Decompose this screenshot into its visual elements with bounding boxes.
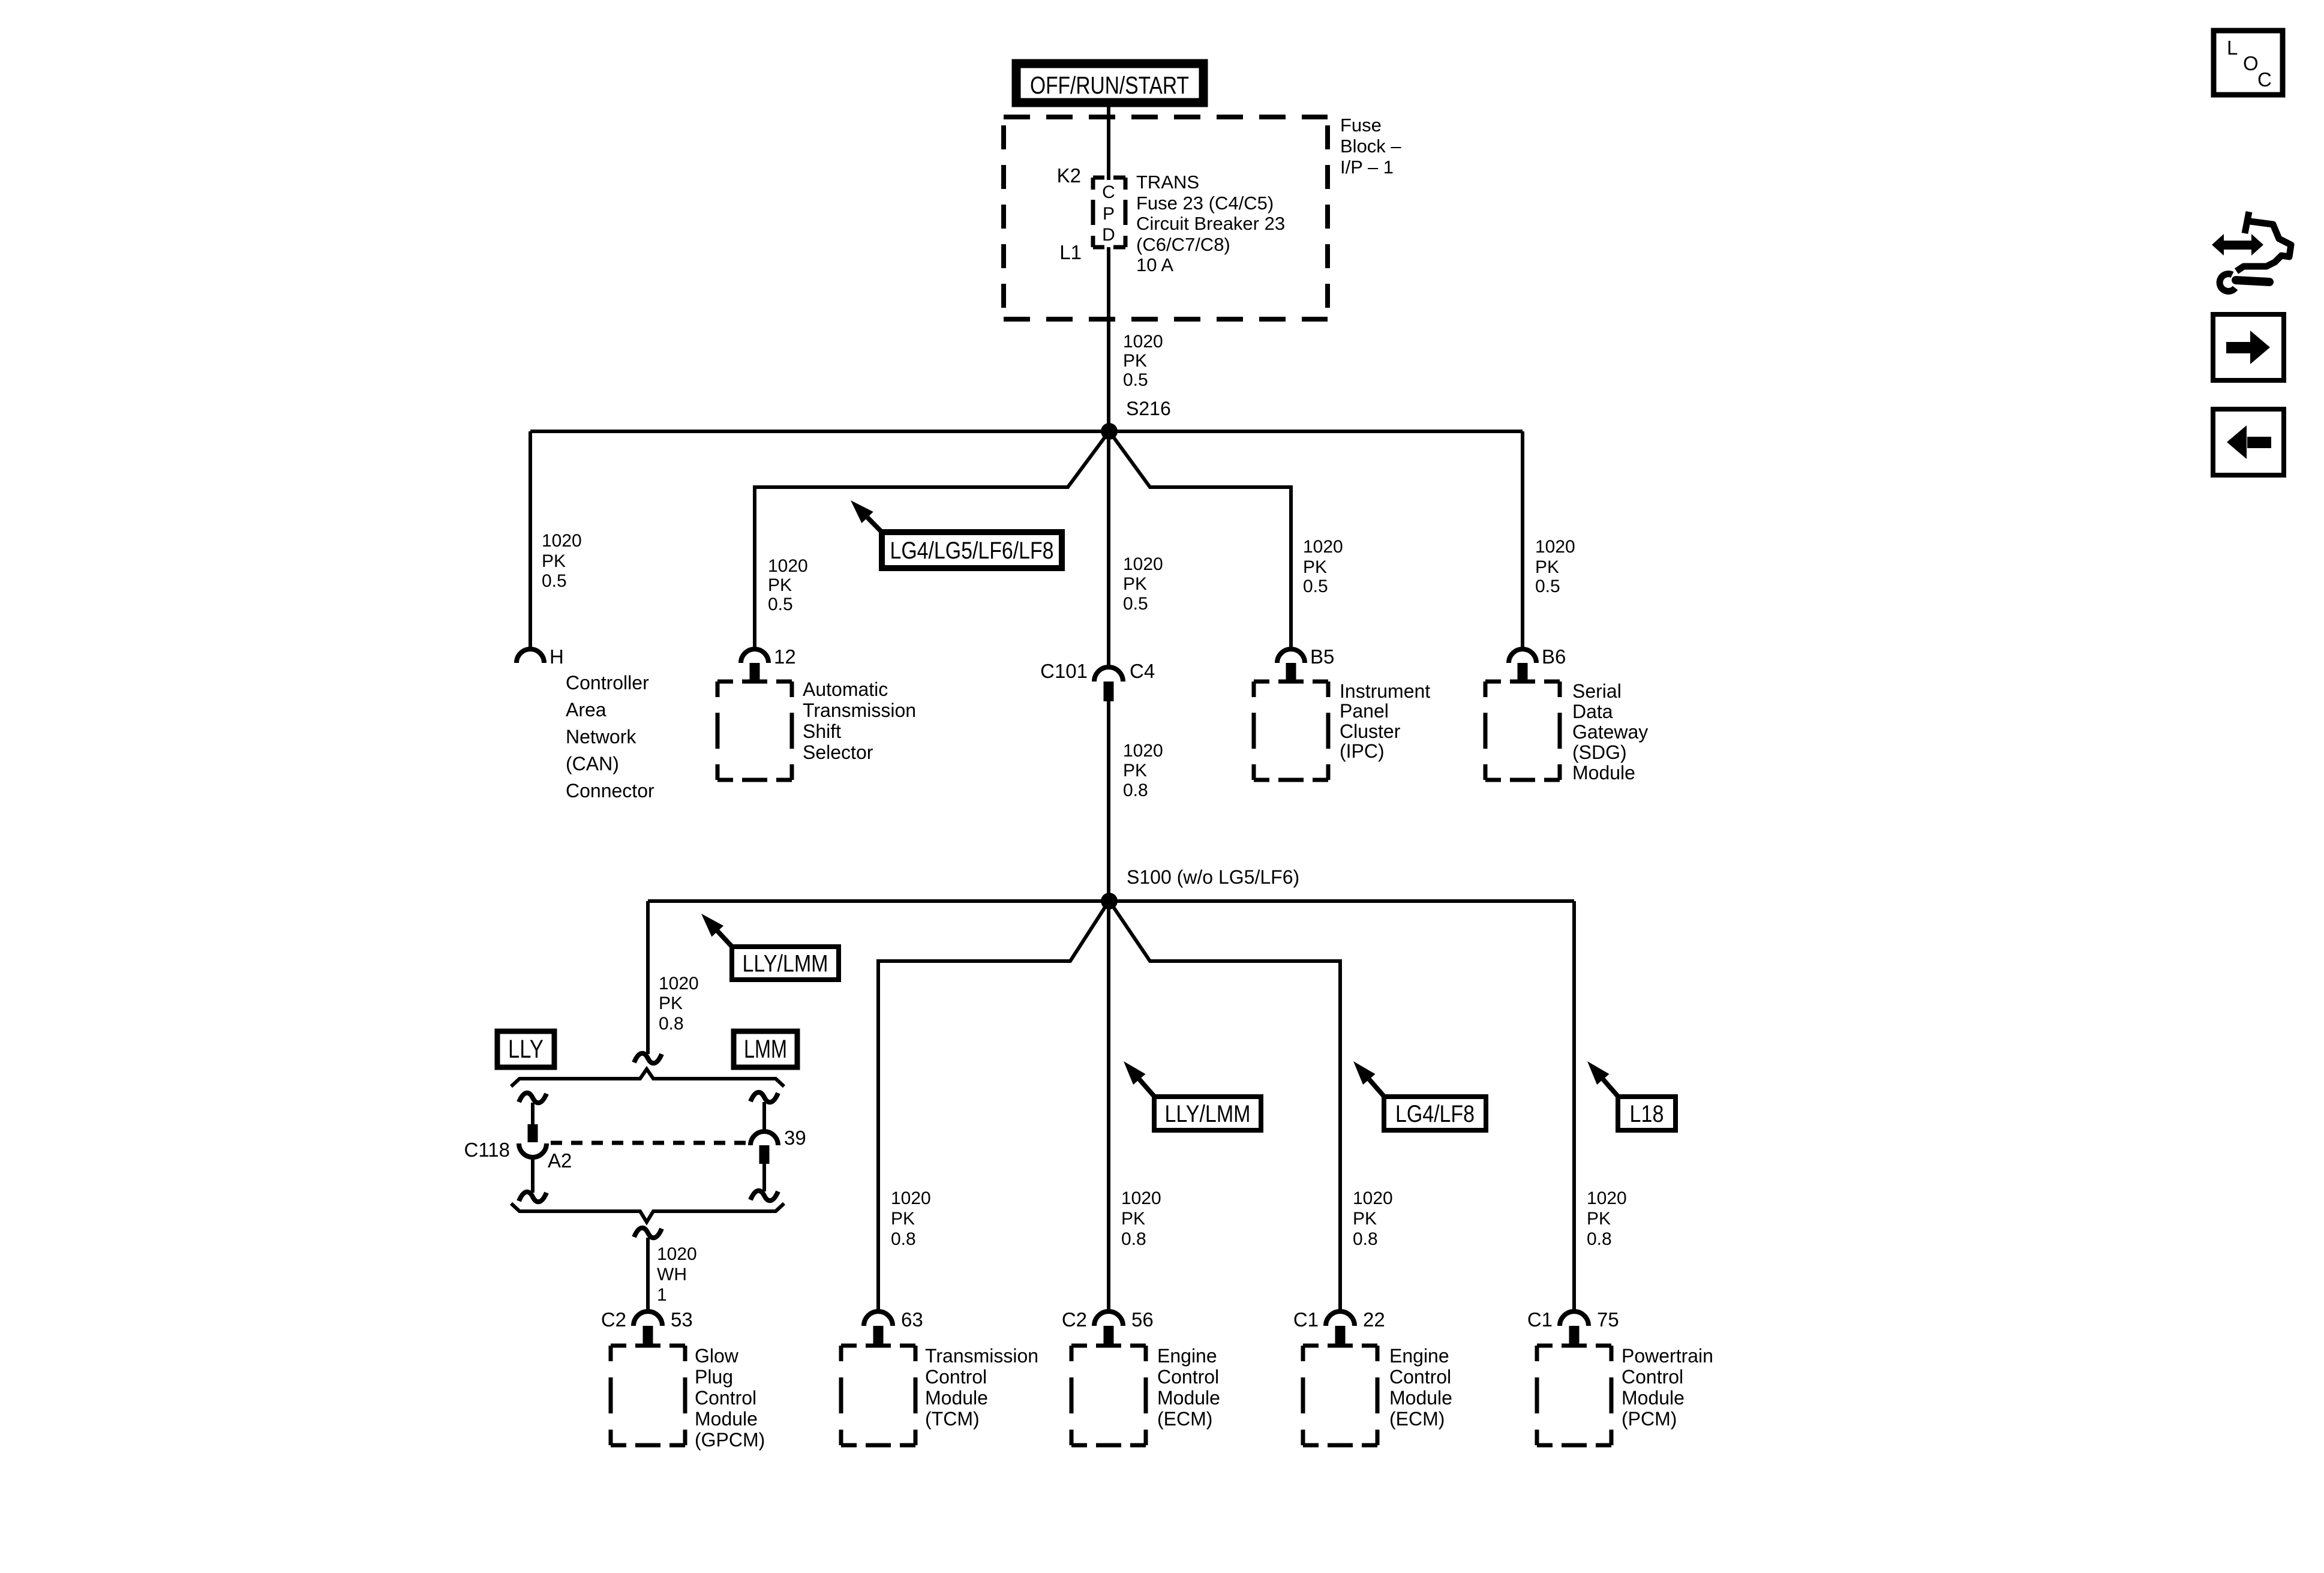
svg-text:0.8: 0.8 — [1587, 1229, 1612, 1249]
svg-text:0.8: 0.8 — [1123, 781, 1148, 800]
svg-text:(TCM): (TCM) — [925, 1408, 980, 1430]
LLY leg wire lower — [531, 1157, 535, 1193]
LMM leg wire lower — [762, 1164, 766, 1191]
svg-text:1020: 1020 — [1535, 537, 1575, 557]
svg-text:63: 63 — [901, 1308, 923, 1331]
svg-text:(ECM): (ECM) — [1157, 1408, 1212, 1430]
svg-text:1020: 1020 — [1123, 741, 1163, 761]
option box LMM — [734, 1031, 797, 1067]
terminal 39 label — [784, 1127, 806, 1149]
svg-text:Control: Control — [1622, 1366, 1683, 1388]
pin L1 label — [1059, 241, 1082, 263]
wire label 1020 WH 1 — [657, 1244, 697, 1305]
wire label 1020 PK 0.5 (CAN branch) — [542, 531, 582, 591]
terminal H label — [550, 646, 564, 668]
svg-text:H: H — [550, 646, 564, 668]
svg-text:10 A: 10 A — [1136, 254, 1173, 275]
splice S100 label — [1127, 866, 1299, 888]
svg-text:Control: Control — [695, 1387, 756, 1409]
svg-text:D: D — [1102, 225, 1115, 245]
svg-text:0.8: 0.8 — [1121, 1229, 1146, 1249]
pin K2 label — [1057, 164, 1081, 187]
terminal 53 label — [671, 1308, 693, 1331]
svg-text:C2: C2 — [1062, 1308, 1087, 1331]
LMM leg end curl — [750, 1191, 778, 1201]
svg-text:C4: C4 — [1130, 660, 1155, 682]
svg-text:PK: PK — [1535, 557, 1559, 577]
svg-text:PK: PK — [768, 575, 792, 595]
GPCM dashed box — [611, 1346, 685, 1445]
svg-text:Engine: Engine — [1389, 1345, 1449, 1367]
terminal 75 pin — [1569, 1326, 1580, 1346]
svg-text:PK: PK — [1123, 351, 1147, 371]
wire C101 to S100 — [1107, 701, 1110, 903]
svg-text:Shift: Shift — [803, 721, 841, 742]
svg-text:Module: Module — [695, 1408, 758, 1430]
wire label 1020 PK 0.5 (SDG branch) — [1535, 537, 1575, 596]
terminal B5 label — [1310, 646, 1334, 668]
ignition switch position box OFF/RUN/START — [1016, 64, 1203, 103]
svg-text:LG4/LG5/LF6/LF8: LG4/LG5/LF6/LF8 — [890, 538, 1054, 564]
wire label 1020 PK 0.5 (shift selector branch) — [768, 556, 808, 614]
svg-text:Cluster: Cluster — [1340, 721, 1401, 742]
svg-text:TRANS: TRANS — [1136, 172, 1199, 193]
wire S216 to C101 — [1107, 431, 1110, 668]
svg-text:C: C — [2257, 68, 2272, 91]
svg-text:1020: 1020 — [1353, 1188, 1393, 1208]
connector mate dashed line — [551, 1141, 746, 1145]
svg-text:Circuit Breaker 23: Circuit Breaker 23 — [1136, 213, 1285, 234]
svg-text:0.8: 0.8 — [1353, 1229, 1378, 1249]
terminal 56 arc — [1094, 1311, 1123, 1326]
wire label 1020 PK 0.8 (TCM branch) — [891, 1188, 931, 1249]
svg-text:Fuse 23 (C4/C5): Fuse 23 (C4/C5) — [1136, 193, 1274, 214]
option callout LLY/LMM (left) — [701, 914, 839, 980]
engine option callout LG4/LG5/LF6/LF8 — [851, 500, 1062, 568]
wire label 1020 PK 0.8 (GPCM branch) — [659, 974, 699, 1034]
svg-text:C1: C1 — [1527, 1308, 1553, 1331]
terminal 63 arc — [864, 1311, 893, 1326]
svg-text:Engine: Engine — [1157, 1345, 1217, 1367]
svg-text:Area: Area — [566, 699, 606, 721]
svg-text:1020: 1020 — [768, 556, 808, 576]
svg-text:Plug: Plug — [695, 1366, 733, 1388]
svg-text:LLY/LMM: LLY/LMM — [1165, 1101, 1251, 1127]
wire S100 to ECM C2 — [1107, 901, 1110, 1313]
terminal 39 arc — [750, 1131, 778, 1145]
wire S100 horizontal bus — [648, 899, 1574, 903]
wire S216 to shift selector (diagonal+horizontal+vertical) — [755, 434, 1107, 652]
wire fuse L1 to S216 — [1107, 247, 1110, 433]
svg-text:56: 56 — [1131, 1308, 1154, 1331]
connector C1 label (PCM) — [1527, 1308, 1553, 1331]
back arrow button — [2213, 409, 2284, 475]
wire label 1020 PK 0.8 (ECM C1 branch) — [1353, 1188, 1393, 1249]
option callout LG4/LF8 — [1353, 1061, 1486, 1130]
terminal 63 label — [901, 1308, 923, 1331]
svg-text:Network: Network — [566, 726, 636, 748]
svg-text:S216: S216 — [1126, 398, 1171, 419]
wire break curl (bottom of split) — [634, 1228, 662, 1238]
fuse block I/P dashed outline — [1004, 117, 1328, 319]
svg-text:PK: PK — [891, 1209, 915, 1229]
svg-text:0.5: 0.5 — [1303, 577, 1328, 596]
svg-text:1020: 1020 — [542, 531, 582, 551]
svg-text:PK: PK — [1123, 574, 1147, 594]
GPCM label — [695, 1345, 765, 1451]
svg-text:(ECM): (ECM) — [1389, 1408, 1445, 1430]
ECM (C1) dashed box — [1303, 1346, 1377, 1445]
svg-text:B6: B6 — [1542, 646, 1566, 668]
wire split to GPCM — [646, 1238, 650, 1313]
terminal B5 arc — [1277, 649, 1305, 663]
wire S100 to PCM — [1572, 901, 1576, 1313]
terminal 75 arc — [1560, 1311, 1589, 1326]
svg-text:Instrument: Instrument — [1340, 680, 1430, 702]
terminal 53 arc — [633, 1311, 662, 1326]
svg-text:Fuse: Fuse — [1340, 115, 1382, 136]
terminal 12 label — [774, 646, 796, 668]
svg-text:1020: 1020 — [891, 1188, 931, 1208]
terminal 63 pin — [873, 1326, 884, 1346]
svg-text:L: L — [2227, 37, 2238, 59]
wire label 1020 PK 0.5 (center) — [1123, 554, 1163, 614]
terminal 12 pin — [750, 663, 760, 681]
svg-text:Transmission: Transmission — [925, 1345, 1038, 1367]
svg-text:1020: 1020 — [1587, 1188, 1627, 1208]
svg-text:LG4/LF8: LG4/LF8 — [1395, 1101, 1475, 1127]
split bottom brace — [511, 1203, 784, 1222]
svg-text:(C6/C7/C8): (C6/C7/C8) — [1136, 234, 1230, 255]
svg-text:C: C — [1102, 182, 1115, 202]
svg-text:(IPC): (IPC) — [1340, 740, 1385, 762]
svg-text:Automatic: Automatic — [803, 679, 888, 700]
svg-text:Control: Control — [1157, 1366, 1219, 1388]
connector C118 cup — [519, 1143, 547, 1157]
svg-text:Selector: Selector — [803, 742, 873, 763]
LLY leg wire upper — [531, 1103, 535, 1125]
svg-text:Transmission: Transmission — [803, 700, 916, 721]
wire label 1020 PK 0.5 (IPC branch) — [1303, 537, 1343, 596]
svg-text:Module: Module — [1389, 1387, 1452, 1409]
SDG label — [1572, 680, 1648, 784]
svg-text:LMM: LMM — [744, 1035, 787, 1064]
svg-text:OFF/RUN/START: OFF/RUN/START — [1030, 71, 1189, 99]
ECM (C2) label — [1157, 1345, 1220, 1430]
svg-text:Controller: Controller — [566, 672, 649, 694]
terminal 22 arc — [1326, 1311, 1355, 1326]
TCM dashed box — [841, 1346, 915, 1445]
svg-text:Glow: Glow — [695, 1345, 739, 1367]
IPC dashed box — [1254, 682, 1328, 780]
svg-text:1020: 1020 — [1123, 554, 1163, 574]
LMM leg start curl — [750, 1092, 778, 1103]
svg-text:WH: WH — [657, 1265, 687, 1284]
svg-text:Gateway: Gateway — [1572, 721, 1648, 743]
svg-text:LLY: LLY — [508, 1035, 544, 1064]
svg-text:Block –: Block – — [1340, 136, 1401, 157]
PCM dashed box — [1537, 1346, 1611, 1445]
svg-text:1020: 1020 — [1123, 332, 1163, 352]
PCM label — [1622, 1345, 1713, 1430]
connector C2 label (ECM) — [1062, 1308, 1087, 1331]
connector C118 pin A2 (male) — [528, 1124, 538, 1142]
connector C101 label — [1040, 660, 1088, 682]
connector C2 label (GPCM) — [601, 1308, 626, 1331]
svg-text:1020: 1020 — [1303, 537, 1343, 557]
splice S216 junction dot — [1101, 423, 1118, 440]
inline connector C101 C4 arc — [1094, 667, 1123, 682]
shift selector label — [803, 679, 916, 763]
svg-text:(CAN): (CAN) — [566, 753, 619, 775]
svg-text:0.8: 0.8 — [659, 1014, 684, 1034]
svg-text:Control: Control — [1389, 1366, 1451, 1388]
terminal 56 label — [1131, 1308, 1154, 1331]
svg-text:75: 75 — [1597, 1308, 1619, 1331]
terminal B6 label — [1542, 646, 1566, 668]
terminal 22 pin — [1335, 1326, 1346, 1346]
svg-text:Module: Module — [1622, 1387, 1685, 1409]
splice S100 junction dot — [1101, 893, 1118, 909]
svg-text:Module: Module — [1572, 762, 1635, 784]
terminal 12 arc — [741, 649, 768, 663]
svg-text:L18: L18 — [1630, 1101, 1664, 1127]
svg-text:PK: PK — [1353, 1209, 1377, 1229]
connector C118 label — [464, 1139, 510, 1161]
svg-text:PK: PK — [1303, 557, 1327, 577]
option box LLY — [497, 1031, 554, 1067]
svg-text:0.8: 0.8 — [891, 1229, 916, 1249]
svg-text:PK: PK — [1123, 761, 1147, 781]
wire from OFF/RUN/START to fuse — [1107, 103, 1110, 180]
splice S216 label — [1126, 398, 1171, 419]
TCM label — [925, 1345, 1038, 1430]
svg-text:PK: PK — [1587, 1209, 1611, 1229]
split top brace — [511, 1069, 784, 1086]
svg-text:1020: 1020 — [659, 974, 699, 993]
connector C4 label — [1130, 660, 1155, 682]
svg-text:22: 22 — [1363, 1308, 1385, 1331]
wire S100 to TCM (diagonal+horizontal+vertical) — [878, 903, 1107, 1314]
svg-text:1020: 1020 — [1121, 1188, 1161, 1208]
svg-text:1020: 1020 — [657, 1244, 697, 1264]
wire label 1020 PK 0.8 (center lower) — [1123, 741, 1163, 800]
svg-text:53: 53 — [671, 1308, 693, 1331]
LLY leg end curl — [519, 1192, 547, 1202]
terminal 75 label — [1597, 1308, 1619, 1331]
svg-text:(PCM): (PCM) — [1622, 1408, 1677, 1430]
svg-text:PK: PK — [659, 993, 683, 1013]
svg-text:0.5: 0.5 — [1123, 370, 1148, 390]
wire S216 horizontal bus — [530, 430, 1523, 433]
svg-text:Control: Control — [925, 1366, 987, 1388]
svg-text:12: 12 — [774, 646, 796, 668]
svg-text:Powertrain: Powertrain — [1622, 1345, 1713, 1367]
svg-text:Module: Module — [925, 1387, 988, 1409]
svg-text:0.5: 0.5 — [768, 595, 793, 614]
svg-text:C101: C101 — [1040, 660, 1088, 682]
svg-text:L1: L1 — [1059, 241, 1082, 263]
terminal 22 label — [1363, 1308, 1385, 1331]
terminal 39 pin — [759, 1145, 770, 1164]
svg-text:C2: C2 — [601, 1308, 626, 1331]
wire S216 to SDG module — [1521, 431, 1524, 652]
svg-text:C1: C1 — [1293, 1308, 1319, 1331]
svg-text:0.5: 0.5 — [542, 571, 567, 591]
svg-text:C118: C118 — [464, 1139, 510, 1161]
wire S100 to LLY/LMM split — [646, 901, 650, 1054]
wire to CAN connector H — [529, 431, 532, 652]
svg-text:0.5: 0.5 — [1535, 577, 1560, 596]
svg-text:P: P — [1103, 204, 1115, 224]
forward arrow button — [2213, 314, 2284, 380]
svg-text:Data: Data — [1572, 701, 1613, 722]
option callout L18 — [1587, 1061, 1676, 1130]
fuse block label — [1340, 115, 1401, 178]
connector/wrench diagnostic icon — [2212, 212, 2291, 292]
wire label 1020 PK 0.8 (PCM branch) — [1587, 1188, 1627, 1249]
terminal A2 label — [548, 1149, 572, 1172]
svg-text:O: O — [2243, 52, 2259, 74]
svg-text:(SDG): (SDG) — [1572, 742, 1627, 763]
wire break curl (top of split) — [634, 1053, 662, 1064]
fuse/circuit breaker 23 CPD dashed box — [1093, 178, 1125, 247]
terminal H arc — [517, 649, 544, 663]
IPC label — [1340, 680, 1430, 762]
ECM (C1) label — [1389, 1345, 1452, 1430]
LLY leg start curl — [519, 1093, 547, 1103]
svg-text:LLY/LMM: LLY/LMM — [743, 951, 828, 977]
wire S216 to IPC (diagonal+horizontal+vertical) — [1111, 434, 1291, 652]
svg-text:B5: B5 — [1310, 646, 1334, 668]
svg-text:Connector: Connector — [566, 780, 654, 801]
svg-text:39: 39 — [784, 1127, 806, 1149]
connector C1 label (ECM) — [1293, 1308, 1319, 1331]
svg-text:1: 1 — [657, 1285, 667, 1305]
wire label 1020 PK 0.5 (fuse output) — [1123, 332, 1163, 390]
svg-text:Serial: Serial — [1572, 680, 1622, 702]
terminal 56 pin — [1104, 1326, 1114, 1346]
terminal B5 pin — [1286, 663, 1296, 681]
SDG dashed box — [1485, 682, 1560, 780]
LOC legend box — [2214, 31, 2283, 95]
svg-text:PK: PK — [1121, 1209, 1145, 1229]
svg-text:0.5: 0.5 — [1123, 594, 1148, 614]
svg-text:Module: Module — [1157, 1387, 1220, 1409]
fuse description TRANS — [1136, 172, 1285, 275]
terminal B6 pin — [1518, 663, 1528, 681]
LMM leg wire upper — [762, 1102, 766, 1133]
svg-text:I/P – 1: I/P – 1 — [1340, 157, 1394, 178]
shift selector dashed box — [717, 682, 792, 780]
svg-text:PK: PK — [542, 551, 566, 571]
wire label 1020 PK 0.8 (ECM C2 branch) — [1121, 1188, 1161, 1249]
svg-text:(GPCM): (GPCM) — [695, 1429, 765, 1451]
wire S100 to ECM C1 (diagonal+horizontal+vertical) — [1111, 903, 1340, 1314]
svg-text:K2: K2 — [1057, 164, 1081, 187]
option callout LLY/LMM (center) — [1124, 1061, 1261, 1130]
terminal B6 arc — [1509, 649, 1536, 663]
svg-text:Panel: Panel — [1340, 700, 1389, 722]
ECM (C2) dashed box — [1071, 1346, 1146, 1445]
terminal 53 pin — [643, 1326, 653, 1346]
inline connector C101 pin — [1104, 682, 1114, 701]
svg-text:S100 (w/o LG5/LF6): S100 (w/o LG5/LF6) — [1127, 866, 1299, 888]
svg-text:A2: A2 — [548, 1149, 572, 1172]
CAN connector label — [566, 672, 654, 801]
